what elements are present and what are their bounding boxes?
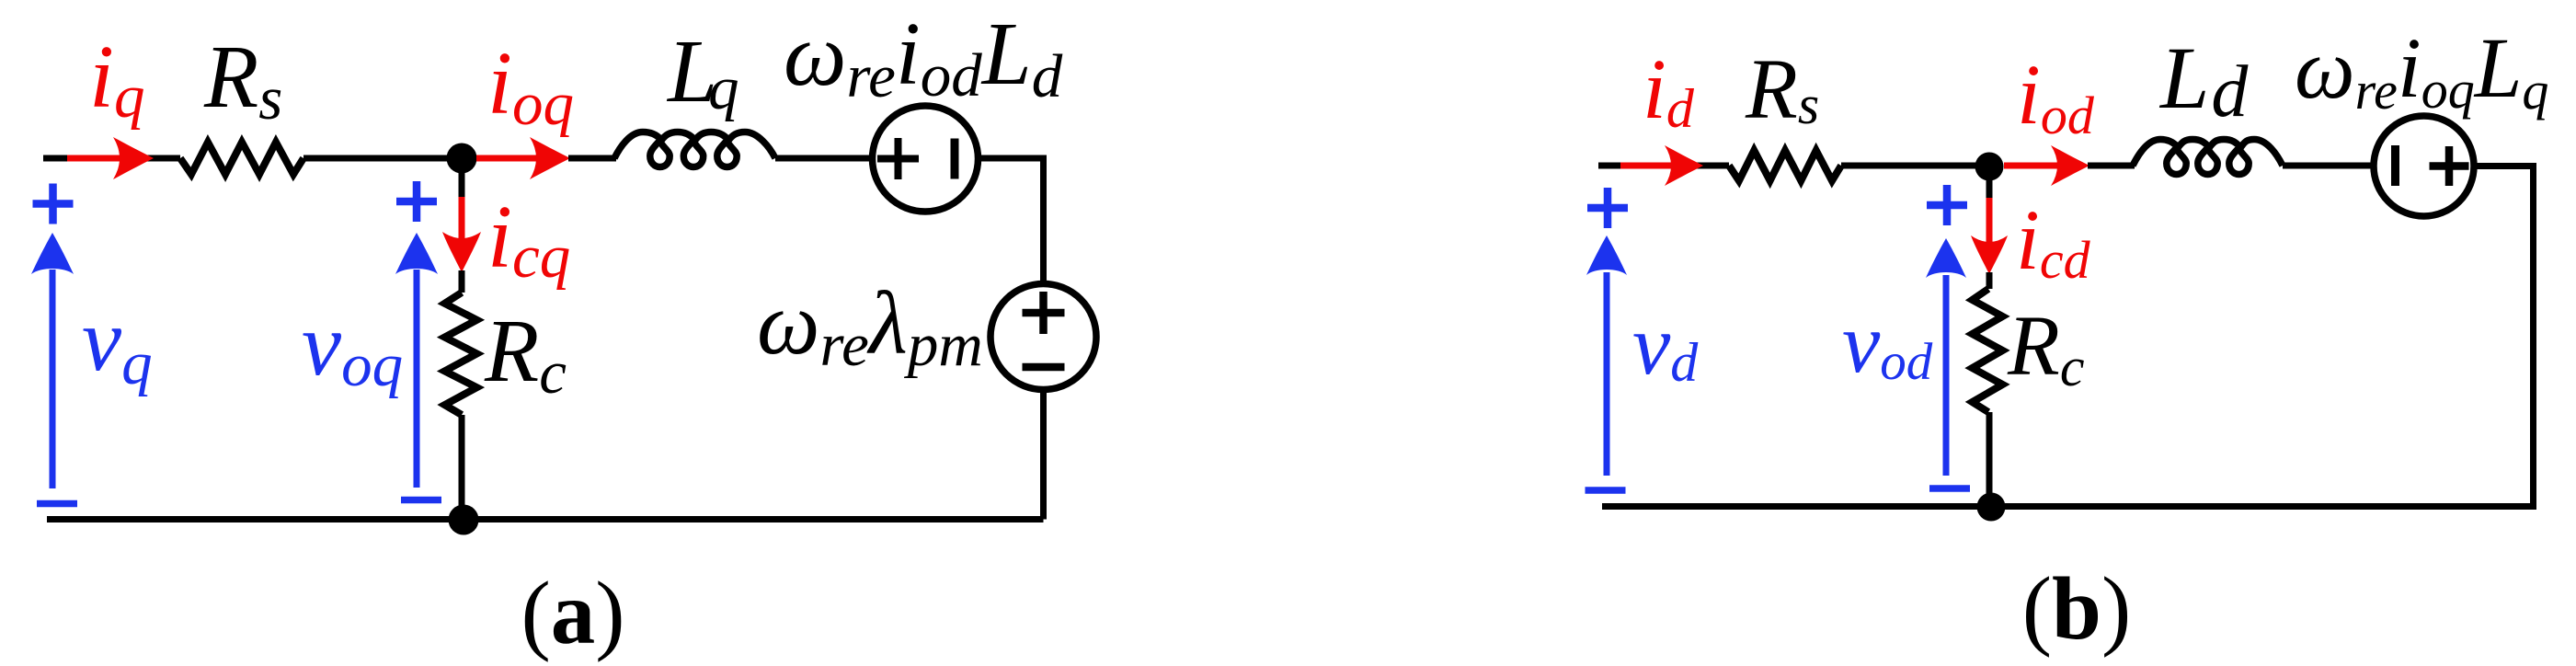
svg-text:vd: vd	[1632, 298, 1699, 393]
svg-text:Ld: Ld	[2158, 29, 2249, 132]
resistor Rc (a)	[445, 293, 477, 415]
svg-text:id: id	[1643, 42, 1695, 139]
svg-text:voq: voq	[302, 295, 403, 399]
resistor Rs (a)	[180, 143, 303, 175]
svg-text:ωreλpm: ωreλpm	[757, 274, 983, 379]
current arrow icd	[1971, 178, 2008, 274]
wire: U1 to corner down to U2	[978, 158, 1044, 284]
source U1: dependent source w_re*i_od*L_d	[873, 106, 979, 212]
node A1 (top junction of a)	[447, 144, 477, 174]
wire: icd arrow to Rc (b)	[1986, 272, 1993, 289]
voltage arrow voq	[395, 181, 441, 500]
svg-text:Lq: Lq	[666, 22, 738, 122]
wire: (b) top-left segment	[1598, 163, 1729, 169]
svg-text:Rc: Rc	[2007, 299, 2084, 397]
svg-text:vq: vq	[82, 291, 153, 397]
current arrow iq	[67, 137, 154, 179]
current arrow ioq	[476, 137, 570, 179]
svg-text:iq: iq	[89, 28, 144, 131]
source U2: back-EMF w_re*lambda_pm	[990, 284, 1096, 390]
current arrow iod	[2004, 145, 2089, 186]
wire: Rs to node (a)	[303, 155, 462, 162]
svg-text:iod: iod	[2017, 48, 2095, 145]
resistor Rs (b)	[1729, 151, 1841, 181]
wire: arrow to coil (a)	[568, 155, 616, 162]
svg-text:icq: icq	[487, 188, 570, 291]
svg-text:icd: icd	[2016, 193, 2091, 290]
current arrow id	[1620, 145, 1703, 186]
inductor Lq	[614, 132, 775, 167]
wire: U2 down to bottom rail (a)	[1040, 389, 1047, 520]
svg-text:ωreioqLq: ωreioqLq	[2295, 21, 2548, 121]
svg-text:Rs: Rs	[203, 28, 282, 132]
wire: bottom rail (a)	[47, 516, 1044, 522]
resistor Rc (b)	[1973, 289, 2003, 412]
inductor Ld	[2133, 140, 2283, 175]
node B2 (bottom junction of b)	[1977, 493, 2006, 522]
source U3: dependent source w_re*i_oq*L_q	[2374, 116, 2474, 216]
current arrow icq	[442, 171, 481, 272]
node A2 (bottom junction of a)	[449, 505, 479, 535]
svg-text:ωreiodLd: ωreiodLd	[784, 5, 1063, 110]
voltage arrow vd	[1586, 188, 1629, 490]
svg-text:(b): (b)	[2022, 559, 2132, 658]
svg-text:(a): (a)	[521, 564, 624, 662]
wire: Rc to bottom node (b)	[1986, 412, 1993, 502]
wire: (a) top-left segment	[43, 155, 180, 162]
wire: icq arrow to Rc (a)	[459, 270, 465, 293]
voltage arrow vq	[31, 184, 77, 504]
wire: U3 right corner down and bottom rail (b)	[1602, 166, 2534, 507]
voltage arrow vod	[1926, 185, 1970, 488]
wire: Rc to bottom node (a)	[459, 415, 465, 515]
wire: arrow to coil (b)	[2088, 163, 2135, 169]
wire: Rs to node (b)	[1841, 163, 1989, 169]
svg-text:vod: vod	[1842, 296, 1933, 391]
svg-text:Rs: Rs	[1745, 42, 1819, 137]
svg-text:Rc: Rc	[484, 302, 567, 407]
wire: coil to source U1	[775, 155, 870, 162]
svg-text:ioq: ioq	[487, 34, 574, 138]
wire: coil to source U3	[2283, 163, 2375, 169]
node B1 (top junction of b)	[1975, 153, 2004, 181]
